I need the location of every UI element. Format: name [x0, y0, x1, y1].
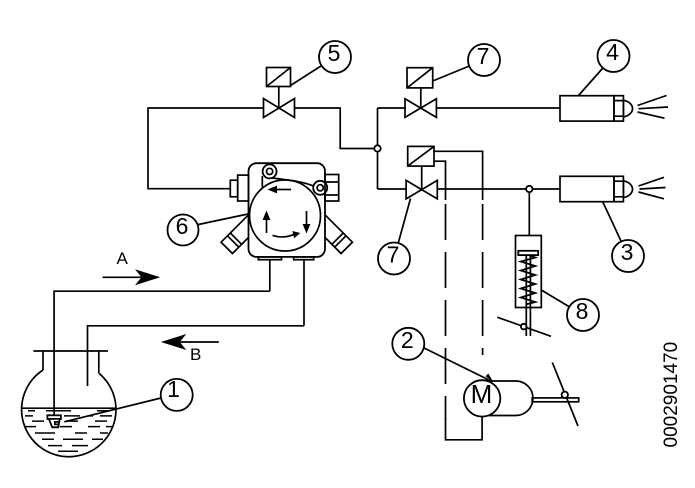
pump port circle right [313, 181, 327, 195]
pump arrow rotate [273, 234, 295, 237]
liquid dashes [24, 411, 112, 452]
wire solenoid7b upper to right vertical [434, 151, 483, 200]
valve V7a body [405, 99, 436, 118]
svg-text:7: 7 [477, 43, 490, 69]
flask 1 [22, 351, 116, 457]
nozzle 3 [560, 176, 666, 201]
pump right tab [325, 175, 339, 202]
svg-text:5: 5 [328, 40, 341, 66]
svg-text:0002901470: 0002901470 [661, 342, 682, 448]
valve V7b solenoid [408, 146, 434, 189]
wire node to damper [528, 189, 530, 236]
label circle 5 [319, 40, 351, 73]
label circle 7b [378, 242, 410, 275]
wire valve5 right to junction [295, 108, 378, 149]
label circle 4 [598, 39, 630, 72]
arrow A [103, 249, 161, 285]
svg-text:A: A [117, 249, 129, 268]
leader line 8 [541, 290, 583, 315]
node junction top [374, 145, 380, 151]
svg-text:B: B [190, 345, 201, 364]
wire top row to valve7a [378, 107, 407, 109]
svg-text:3: 3 [621, 239, 634, 265]
svg-text:4: 4 [606, 39, 619, 65]
label circle 6 [168, 213, 199, 246]
valve V7a solenoid [407, 68, 433, 108]
leader line 5 [291, 57, 336, 86]
pump inner tube top [272, 178, 315, 187]
pump arrow up [266, 219, 268, 233]
pipe A [54, 291, 270, 415]
motor 2 [464, 362, 579, 426]
leader line 2 [420, 346, 492, 382]
leader line 1 [64, 398, 163, 422]
pump body [249, 163, 326, 257]
pump port circle left [263, 164, 277, 178]
wire valve7a to nozzle4 [437, 107, 560, 109]
pump port stub [261, 176, 263, 188]
strainer [47, 415, 61, 419]
label circle 3 [612, 239, 644, 272]
pump outlet wires [269, 260, 271, 292]
leader line 4 [579, 56, 614, 96]
valve V5 body [264, 99, 295, 118]
dashed control line right [482, 204, 484, 355]
liquid level [22, 407, 116, 409]
pump 6 [221, 163, 352, 259]
wire valve7b to nozzle3 [437, 188, 560, 190]
pump right foot [314, 215, 352, 253]
svg-text:M: M [471, 379, 493, 409]
svg-text:6: 6 [176, 213, 189, 239]
pump chamber [250, 180, 321, 251]
dashed control line left [445, 204, 447, 420]
pipe B [88, 326, 305, 386]
pump arrow left [276, 189, 291, 191]
leader line 7a [433, 60, 484, 81]
valve V7b body [406, 180, 437, 199]
svg-text:7: 7 [387, 242, 400, 268]
pump left port tabs [238, 175, 249, 201]
pump arrow down [306, 211, 308, 225]
wire bottom row to valve7b [378, 188, 407, 190]
label circle 2 [392, 327, 424, 360]
label circle 8 [567, 298, 599, 331]
wire vertical between valve rows [377, 108, 379, 189]
leader line 6 [196, 213, 253, 225]
pump bottom tabs [258, 257, 281, 260]
valve V5 solenoid [267, 68, 291, 109]
label circle 1 [161, 376, 193, 411]
pump left foot [221, 215, 259, 253]
svg-text:1: 1 [167, 376, 180, 402]
leader line 3 [603, 202, 628, 257]
arrow B [161, 334, 219, 364]
wire hook to motor [446, 416, 483, 440]
leader line 7b [394, 199, 411, 259]
label circle 7a [468, 43, 500, 76]
svg-text:8: 8 [576, 298, 589, 324]
wire valve5 left loop to pump inlet [148, 108, 264, 189]
wire solenoid7b lower to left vertical [434, 161, 446, 200]
svg-text:2: 2 [401, 327, 414, 353]
node junction damper [526, 186, 532, 192]
nozzle 4 [560, 96, 668, 122]
damper 8 [497, 236, 551, 337]
